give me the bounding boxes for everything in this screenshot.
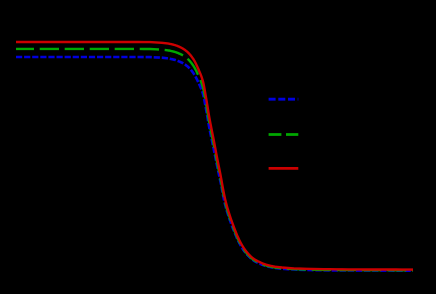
curve red (solid, top plateau)	[16, 42, 413, 270]
legend green sample	[269, 133, 299, 136]
legend red sample	[269, 167, 299, 170]
curve blue (short-dashed, lowest plateau)	[16, 57, 413, 271]
legend blue sample	[269, 98, 299, 101]
curve green (long-dashed, middle plateau)	[16, 49, 413, 270]
